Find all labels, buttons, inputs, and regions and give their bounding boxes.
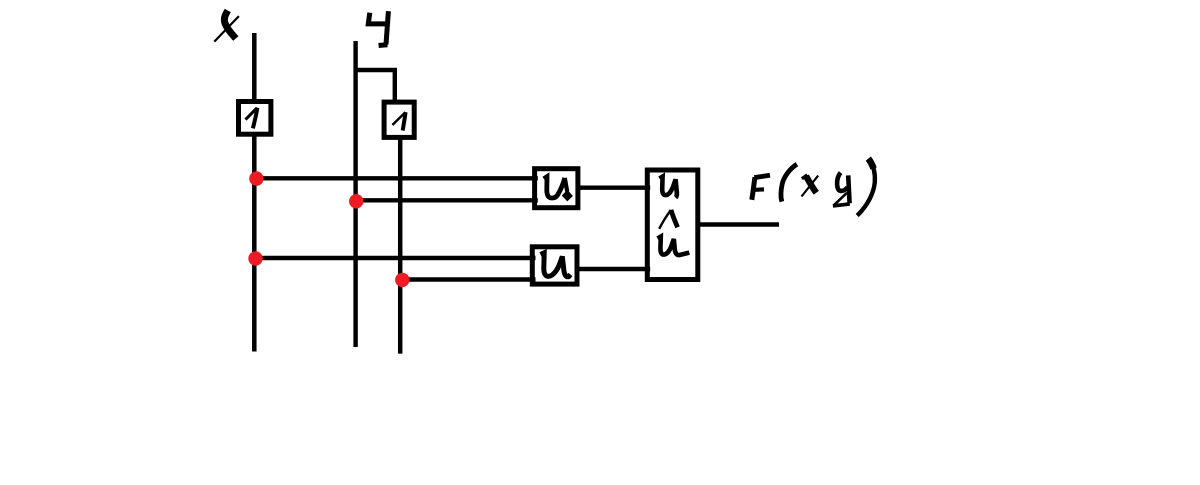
inverter U1 box: [239, 102, 271, 135]
wire AND1 to OR: [577, 185, 651, 189]
junction J3: [248, 251, 262, 265]
wire below inverter B2: [398, 138, 403, 354]
node y label: [368, 11, 388, 45]
AND gate A2 label: [541, 253, 571, 277]
wire x input vertical: [252, 33, 257, 352]
paren close: [857, 159, 875, 216]
wire y input vertical: [353, 41, 357, 347]
OR label l middle: [659, 210, 677, 229]
AND gate A1 box: [535, 169, 578, 208]
junction J4: [395, 273, 409, 287]
node F label: [752, 175, 770, 200]
wire AND2 to OR: [576, 267, 651, 271]
node x label: [214, 11, 239, 42]
wire W1 x to AND1: [254, 176, 538, 180]
inverter U1 label 1: [246, 108, 258, 129]
wire OR output: [696, 222, 780, 226]
junction J1: [249, 171, 263, 185]
OR gate box: [647, 170, 698, 280]
wire y branch to inverter B2: [356, 70, 395, 101]
AND gate A2 box: [532, 247, 577, 284]
inverter U2 box: [384, 102, 414, 137]
paren open: [781, 164, 797, 201]
wire W3 x to AND2: [254, 256, 536, 260]
AND gate A1 label: [544, 177, 573, 202]
OR label i top: [660, 177, 677, 198]
inverter U2 label 1: [392, 112, 405, 130]
OR label i bottom: [658, 237, 690, 255]
F arg y: [833, 173, 850, 206]
wire W2 y to AND1: [356, 198, 538, 202]
F arg x: [802, 175, 819, 197]
junction J2: [349, 194, 363, 208]
wire W4 noty to AND2: [402, 277, 536, 281]
